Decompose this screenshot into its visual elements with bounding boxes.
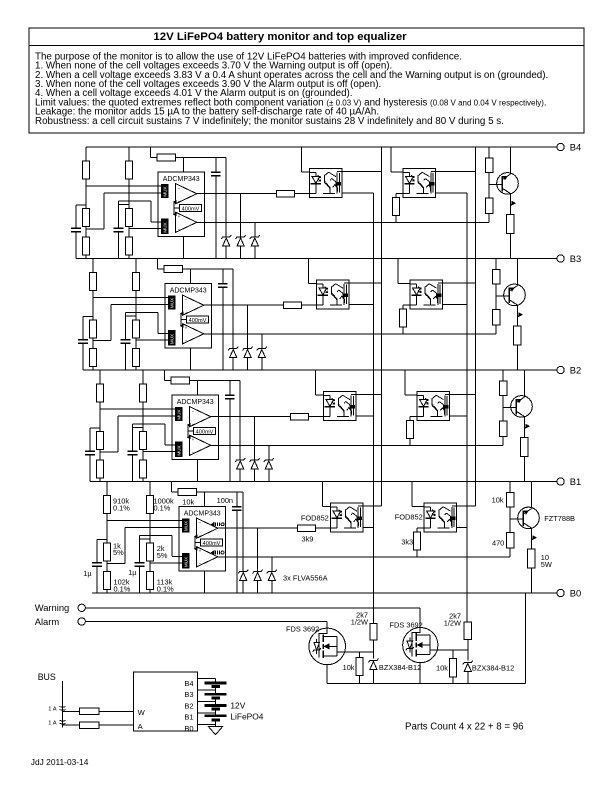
svg-text:+: +: [178, 199, 181, 204]
wire warning collector bus V2: [380, 147, 382, 506]
svg-text:3k3: 3k3: [401, 538, 413, 547]
wire opto1 emitter to bus: [363, 527, 374, 529]
wire opto2 collector to bus: [449, 394, 475, 396]
hysteresis marks: [211, 523, 214, 527]
svg-text:12V: 12V: [230, 700, 245, 710]
svg-text:BZX384-B12: BZX384-B12: [379, 663, 421, 672]
mux input blocks: [176, 408, 183, 421]
transistor base resistors: [488, 147, 490, 158]
transistor Q (PNP): [503, 407, 516, 409]
wire comparator1 output, resistor 3k9: [211, 416, 291, 418]
wire opto1 collector to bus: [349, 282, 382, 284]
svg-text:ADCMP343: ADCMP343: [184, 511, 221, 518]
svg-text:10k: 10k: [182, 497, 194, 506]
op-amp U ADCMP343 comparator block: [172, 395, 219, 460]
svg-text:400mV: 400mV: [182, 206, 200, 212]
transistor base resistors: [502, 370, 504, 381]
comparator 1 (upper): [176, 184, 197, 204]
wire comparator2 output / base line: [218, 556, 510, 558]
clamp diode D3 (alarm out): [271, 557, 273, 572]
resistor divider chain 1 (910k/1k/102k): [106, 482, 108, 496]
svg-text:+: +: [192, 422, 195, 427]
svg-text:1/2W: 1/2W: [444, 619, 461, 628]
clamp diode D1 (Vdd): [239, 381, 241, 461]
wire W lead with series element: [63, 710, 80, 712]
mux input blocks: [183, 519, 190, 532]
wire opto2 collector to bus: [456, 505, 475, 507]
400mV reference: [186, 316, 208, 323]
transistor base resistors: [495, 259, 497, 270]
svg-text:FOD852: FOD852: [395, 512, 423, 521]
collector resistor: [528, 549, 535, 568]
resistor 3k3: [417, 527, 424, 529]
svg-text:10k: 10k: [343, 663, 355, 672]
wire opto1 emitter to bus: [342, 192, 374, 194]
clamp diode D3 (alarm out): [254, 222, 256, 237]
transistor Q (PNP): [510, 518, 523, 520]
svg-text:5%: 5%: [157, 551, 168, 560]
svg-text:3x FLVA556A: 3x FLVA556A: [283, 574, 328, 583]
svg-text:−: −: [178, 227, 181, 232]
description box: [29, 46, 584, 134]
svg-text:W: W: [138, 708, 146, 717]
resistor divider chain 1 (910k/1k/102k): [92, 259, 94, 273]
clamp diode D3 (alarm out): [261, 334, 263, 349]
wire rail B1: [90, 481, 557, 483]
svg-text:−: −: [185, 298, 188, 303]
transistor M FDS3692 (N-MOSFET): [403, 628, 438, 663]
wire alarm collector bus V4: [475, 147, 477, 506]
svg-text:FZT788B: FZT788B: [544, 514, 575, 523]
svg-text:Parts Count 4 x 22 + 8 = 96: Parts Count 4 x 22 + 8 = 96: [405, 722, 523, 733]
title box: [29, 28, 584, 46]
svg-text:ADCMP343: ADCMP343: [177, 399, 214, 406]
svg-text:FOD852: FOD852: [301, 513, 329, 522]
clamp diode D2 (warning out): [247, 305, 249, 348]
svg-text:MUX: MUX: [163, 186, 168, 196]
svg-text:−: −: [199, 521, 202, 526]
svg-text:0.1%: 0.1%: [157, 584, 174, 593]
wire opto2 emitter to bus: [442, 304, 467, 306]
wire rail B3: [76, 258, 557, 260]
wire opto1 collector to bus: [342, 171, 382, 173]
wire opto2 emitter to bus: [456, 527, 467, 529]
comparator 2 (lower): [176, 212, 197, 232]
clamp diode D1 (Vdd): [242, 492, 244, 572]
node B0 terminal: [557, 589, 564, 596]
wire alarm chain bus V3: [466, 193, 468, 622]
node B3 terminal: [557, 255, 564, 262]
wire A lead with series element: [63, 724, 80, 726]
wire opto1 emitter to bus: [356, 415, 374, 417]
svg-text:B4: B4: [570, 141, 581, 152]
ground: [208, 726, 223, 734]
svg-text:+: +: [199, 534, 202, 539]
wire source return line: [327, 682, 526, 684]
capacitor 100n: [236, 492, 238, 507]
wire opto1 collector to bus: [363, 505, 382, 507]
capacitor 1u (chain 2): [140, 538, 151, 540]
svg-text:MUX: MUX: [177, 409, 182, 419]
collector resistor: [521, 438, 528, 457]
optocoupler 2 (alarm): [410, 280, 443, 309]
400mV reference: [193, 428, 215, 435]
transistor Q (PNP): [496, 295, 509, 297]
optocoupler 2 (alarm): [403, 168, 436, 197]
svg-text:B3: B3: [570, 253, 581, 264]
optocoupler 1 (warning): [316, 280, 349, 309]
node B1 terminal: [557, 478, 564, 485]
svg-text:0.1%: 0.1%: [154, 503, 171, 512]
svg-text:400mV: 400mV: [196, 429, 214, 435]
svg-text:12V LiFePO4 battery monitor an: 12V LiFePO4 battery monitor and top equa…: [153, 31, 407, 43]
resistor 10k (Vdd feed): [171, 482, 173, 493]
monitor block: [134, 672, 198, 731]
optocoupler 2 (alarm): [417, 391, 450, 420]
optocoupler 2 (alarm): [424, 503, 457, 532]
svg-text:+: +: [199, 548, 202, 553]
svg-text:+: +: [185, 311, 188, 316]
clamp diode D2 (warning out): [257, 528, 259, 571]
wire opto2 emitter to bus: [435, 192, 467, 194]
resistor 10k (Vdd feed): [157, 259, 159, 270]
svg-text:3k9: 3k9: [302, 534, 314, 543]
op-amp U ADCMP343 comparator block: [179, 507, 226, 572]
svg-text:BZX384-B12: BZX384-B12: [472, 664, 514, 673]
capacitor 1u (chain 2): [119, 203, 130, 205]
svg-text:MUX: MUX: [170, 298, 175, 308]
wire divider taps to comparator MUX inputs: [93, 296, 169, 298]
svg-text:BUS: BUS: [38, 672, 56, 682]
svg-text:0.1%: 0.1%: [113, 503, 130, 512]
svg-text:ADCMP343: ADCMP343: [163, 176, 200, 183]
wire warning chain bus V1: [373, 193, 375, 623]
svg-text:−: −: [178, 186, 181, 191]
mux input blocks: [169, 296, 176, 309]
svg-text:B0: B0: [184, 724, 193, 733]
wire Alarm line: [85, 621, 326, 623]
svg-text:Alarm: Alarm: [35, 616, 60, 627]
wire comparator2 output / base line: [211, 444, 503, 446]
wire comparator1 output, resistor 3k9: [204, 304, 284, 306]
clamp diode D2 (warning out): [240, 194, 242, 237]
capacitor 1u (chain 1): [90, 427, 100, 429]
svg-text:LiFePO4: LiFePO4: [230, 711, 263, 721]
wire opto1 emitter to bus: [349, 304, 374, 306]
resistor 10k (Vdd feed): [150, 147, 152, 158]
svg-text:FDS 3692: FDS 3692: [390, 621, 423, 630]
clamp diode D1 (Vdd): [232, 269, 234, 349]
svg-text:+: +: [178, 214, 181, 219]
svg-text:400mV: 400mV: [203, 541, 221, 547]
resistor 3k3: [396, 193, 403, 195]
collector resistor: [514, 326, 521, 345]
svg-text:B2: B2: [184, 701, 193, 710]
wire opto2 collector to bus: [442, 282, 475, 284]
resistor 3k3: [410, 416, 417, 418]
svg-text:1 A: 1 A: [48, 720, 57, 726]
svg-text:MUX: MUX: [177, 445, 182, 455]
svg-text:+: +: [192, 437, 195, 442]
comparator 1 (upper): [190, 407, 211, 427]
svg-text:ADCMP343: ADCMP343: [170, 288, 207, 295]
node B4 terminal: [557, 143, 564, 150]
svg-text:400mV: 400mV: [189, 318, 207, 324]
capacitor 100n: [215, 158, 217, 173]
wire opto2 collector to bus: [435, 171, 475, 173]
wire rail B0: [92, 592, 557, 594]
resistor divider chain 1 (910k/1k/102k): [85, 147, 87, 161]
capacitor 1u (chain 1): [76, 204, 86, 206]
resistor divider chain 2 (1000k/2k/113k): [128, 147, 130, 161]
wire rail B2: [83, 369, 557, 371]
clamp diode D3 (alarm out): [268, 445, 270, 460]
svg-text:1µ: 1µ: [83, 569, 92, 578]
400mV reference: [200, 539, 222, 546]
svg-text:−: −: [192, 409, 195, 414]
svg-text:−: −: [199, 562, 202, 567]
capacitor 1u (chain 1): [83, 316, 93, 318]
svg-text:MUX: MUX: [184, 557, 189, 567]
capacitor 1u (chain 2): [133, 426, 144, 428]
wire comparator1 output, resistor 3k9: [218, 527, 298, 529]
svg-text:−: −: [192, 450, 195, 455]
op-amp U ADCMP343 comparator block: [158, 172, 205, 237]
svg-text:+: +: [185, 325, 188, 330]
svg-text:B0: B0: [570, 587, 581, 598]
svg-text:−: −: [185, 339, 188, 344]
svg-text:10k: 10k: [492, 496, 504, 505]
wire comparator2 output / base line: [197, 221, 489, 223]
transistor M FDS3692 (N-MOSFET): [309, 628, 346, 665]
wire rail B4: [86, 146, 557, 148]
wire comparator2 output / base line: [204, 333, 496, 335]
zener D BZX384-B12 left: [368, 659, 378, 663]
svg-text:1 A: 1 A: [48, 707, 57, 713]
node B2 terminal: [557, 366, 564, 373]
wire divider taps to comparator MUX inputs: [86, 185, 162, 187]
svg-text:B3: B3: [184, 690, 193, 699]
transistor Q (PNP): [489, 184, 502, 186]
svg-text:B4: B4: [184, 679, 193, 688]
wire divider taps to comparator MUX inputs: [100, 408, 176, 410]
optocoupler 1 (warning): [330, 503, 363, 532]
svg-text:MUX: MUX: [170, 334, 175, 344]
wire divider taps to comparator MUX inputs: [107, 519, 183, 521]
comparator 2 (lower): [190, 435, 211, 455]
svg-text:MUX: MUX: [163, 222, 168, 232]
svg-text:B1: B1: [184, 713, 193, 722]
comparator 2 (lower): [183, 324, 204, 344]
battery 12V LiFePO4: [198, 677, 216, 679]
svg-text:1µ: 1µ: [128, 568, 137, 577]
clamp diode D1 (Vdd): [225, 158, 227, 238]
svg-text:B2: B2: [570, 364, 581, 375]
comparator 2 (lower): [197, 547, 218, 567]
resistor divider chain 1 (910k/1k/102k): [99, 370, 101, 384]
svg-text:100n: 100n: [217, 496, 233, 505]
svg-text:B1: B1: [570, 476, 581, 487]
collector resistor: [507, 215, 514, 234]
wire opto1 collector to bus: [356, 394, 382, 396]
capacitor 100n: [222, 269, 224, 284]
mux input blocks: [162, 185, 169, 198]
svg-text:5%: 5%: [113, 548, 124, 557]
capacitor 1u (chain 2): [126, 315, 137, 317]
svg-text:FDS 3692: FDS 3692: [286, 625, 319, 634]
svg-text:1/2W: 1/2W: [351, 618, 368, 627]
svg-text:JdJ 2011-03-14: JdJ 2011-03-14: [31, 757, 89, 767]
capacitor 100n: [229, 381, 231, 396]
svg-text:470: 470: [492, 538, 504, 547]
capacitor 1u (chain 1): [97, 539, 107, 541]
comparator 1 (upper): [197, 518, 218, 538]
optocoupler 1 (warning): [323, 391, 356, 420]
optocoupler 1 (warning): [309, 168, 342, 197]
wire Warning line: [85, 607, 420, 609]
clamp diode D2 (warning out): [254, 417, 256, 460]
zener D BZX384-B12 right: [463, 661, 473, 665]
svg-text:Robustness: a cell circuit sus: Robustness: a cell circuit sustains 7 V …: [35, 116, 504, 127]
400mV reference: [179, 205, 201, 212]
svg-text:0.1%: 0.1%: [114, 584, 131, 593]
svg-text:Warning: Warning: [35, 602, 70, 613]
resistor divider chain 2 (1000k/2k/113k): [149, 482, 151, 496]
resistor divider chain 2 (1000k/2k/113k): [142, 370, 144, 384]
svg-text:5W: 5W: [541, 560, 552, 569]
resistor 3k3: [403, 304, 410, 306]
comparator 1 (upper): [183, 295, 204, 315]
resistor 10k (Vdd feed): [164, 370, 166, 381]
svg-text:10k: 10k: [436, 664, 448, 673]
resistor divider chain 2 (1000k/2k/113k): [135, 259, 137, 273]
wire comparator1 output, resistor 3k9: [197, 193, 277, 195]
svg-text:MUX: MUX: [184, 521, 189, 531]
wire opto2 emitter to bus: [449, 415, 467, 417]
op-amp U ADCMP343 comparator block: [165, 284, 212, 349]
transistor base resistors: [509, 482, 511, 493]
